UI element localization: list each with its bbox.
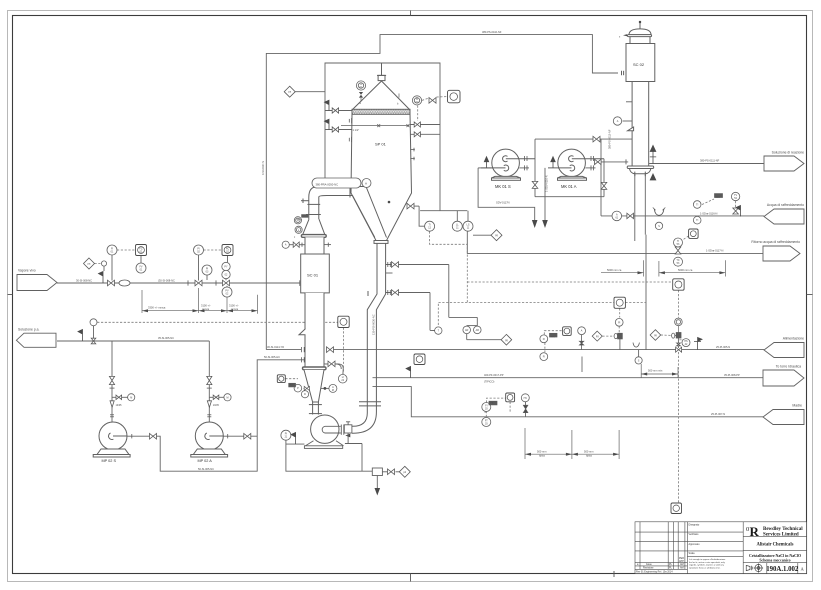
svg-text:SC 02: SC 02 xyxy=(633,62,645,67)
svg-text:Ritorno acqua di raffreddament: Ritorno acqua di raffreddamento xyxy=(751,240,800,244)
svg-text:Alistair Chemicals: Alistair Chemicals xyxy=(756,543,793,548)
svg-text:HV: HV xyxy=(524,397,528,400)
svg-text:PSHH: PSHH xyxy=(296,219,302,221)
svg-text:1-SDra-0117-N: 1-SDra-0117-N xyxy=(706,249,724,253)
svg-text:1 1/2": 1 1/2" xyxy=(353,128,360,132)
svg-text:Services Limited: Services Limited xyxy=(763,533,799,538)
svg-text:Bewdley Technical: Bewdley Technical xyxy=(763,527,803,532)
svg-text:25-PI-005-N: 25-PI-005-N xyxy=(716,345,730,349)
svg-text:M: M xyxy=(227,396,229,399)
svg-text:the loc.le, antica e ceto spor: the loc.le, antica e ceto sporchetti, on… xyxy=(689,561,726,564)
svg-text:mmca: mmca xyxy=(231,308,239,311)
svg-text:Is it enough to appear all'ind: Is it enough to appear all'individuazion… xyxy=(689,558,726,561)
svg-text:Revisione: Revisione xyxy=(643,567,654,570)
svg-text:500 mm: 500 mm xyxy=(584,449,593,453)
svg-text:REC: REC xyxy=(716,197,721,199)
svg-text:3100 +/-: 3100 +/- xyxy=(229,303,239,307)
svg-text:PY: PY xyxy=(224,266,228,269)
svg-text:190A.1.002: 190A.1.002 xyxy=(766,566,799,573)
svg-text:MK 01 A: MK 01 A xyxy=(561,184,577,189)
svg-text:500 mm min: 500 mm min xyxy=(648,369,663,373)
svg-text:Cristallizzatore NaCl in NaClO: Cristallizzatore NaCl in NaClO xyxy=(749,554,801,558)
svg-text:400-PF-0017-PP: 400-PF-0017-PP xyxy=(484,373,504,377)
svg-text:380-PRA-0050-NC: 380-PRA-0050-NC xyxy=(316,182,339,186)
svg-text:Schema meccanico: Schema meccanico xyxy=(759,558,790,562)
svg-text:AR: AR xyxy=(476,329,480,332)
svg-text:MP 02 S: MP 02 S xyxy=(102,459,117,463)
svg-text:TI: TI xyxy=(696,204,698,207)
svg-text:SP 01: SP 01 xyxy=(375,142,387,147)
svg-text:3100 +/-: 3100 +/- xyxy=(201,303,211,307)
svg-text:Rev 01 Engineering Rel. 10a 20: Rev 01 Engineering Rel. 10a 2014 xyxy=(636,571,673,574)
svg-text:tipico: tipico xyxy=(586,454,593,458)
svg-text:SDV-0117N: SDV-0117N xyxy=(496,201,510,205)
svg-text:SC 01: SC 01 xyxy=(307,273,319,278)
svg-text:FI: FI xyxy=(543,356,545,359)
svg-text:FI: FI xyxy=(543,338,545,341)
svg-text:MK 01 S: MK 01 S xyxy=(495,184,511,189)
svg-text:1-SDra-0116-N: 1-SDra-0116-N xyxy=(700,212,718,216)
svg-text:30-SI-0114-YD: 30-SI-0114-YD xyxy=(267,345,284,349)
svg-text:tipico: tipico xyxy=(539,454,546,458)
svg-text:10/05: 10/05 xyxy=(116,404,123,407)
svg-text:AR: AR xyxy=(465,329,469,332)
svg-text:Soluzione p.a.: Soluzione p.a. xyxy=(18,328,40,332)
svg-text:(30-SI-008-NC: (30-SI-008-NC xyxy=(158,279,175,283)
svg-text:D: D xyxy=(304,393,306,396)
svg-text:(TIPICO): (TIPICO) xyxy=(484,379,495,383)
svg-text:380-PS-0111-NF: 380-PS-0111-NF xyxy=(700,159,720,163)
svg-text:35-SI-005-NC: 35-SI-005-NC xyxy=(158,336,174,340)
svg-text:riproducte franca e attribuita: riproducte franca e attribuita error. xyxy=(689,566,721,569)
svg-text:3300 +/- mmca: 3300 +/- mmca xyxy=(148,306,166,310)
svg-text:0-SI-0047-N: 0-SI-0047-N xyxy=(261,161,265,175)
svg-text:REC: REC xyxy=(551,337,556,339)
svg-text:50-SI-005-NC: 50-SI-005-NC xyxy=(198,467,214,471)
svg-text:Scala: Scala xyxy=(689,552,696,555)
svg-text:10/05: 10/05 xyxy=(213,404,220,407)
svg-text:380-PS-0112-NF: 380-PS-0112-NF xyxy=(608,129,612,149)
svg-text:AM: AM xyxy=(680,567,684,570)
svg-text:PI: PI xyxy=(618,321,621,324)
svg-text:Vapore vivo: Vapore vivo xyxy=(18,269,36,273)
svg-text:M: M xyxy=(130,396,132,399)
svg-text:HY: HY xyxy=(680,340,684,342)
svg-text:Soluzione di reazione: Soluzione di reazione xyxy=(772,151,805,155)
svg-text:Verificato: Verificato xyxy=(689,533,700,536)
svg-text:Acqua di raffreddamento: Acqua di raffreddamento xyxy=(767,203,804,207)
svg-text:A: A xyxy=(365,182,367,186)
svg-text:380-PS-0110-NF: 380-PS-0110-NF xyxy=(482,30,502,34)
svg-text:regards, symbols, express a va: regards, symbols, express a valid any xyxy=(689,564,725,567)
svg-text:MP 02 A: MP 02 A xyxy=(198,459,213,463)
svg-text:R: R xyxy=(750,524,760,539)
svg-text:25-PI-007-N: 25-PI-007-N xyxy=(711,412,725,416)
svg-text:Approvato: Approvato xyxy=(689,543,701,546)
svg-text:Madre: Madre xyxy=(792,404,802,408)
svg-text:M: M xyxy=(332,389,334,392)
svg-text:PDT: PDT xyxy=(289,385,294,387)
svg-text:50-SI-005-HC: 50-SI-005-HC xyxy=(264,355,280,359)
svg-text:30-SI-008-NC: 30-SI-008-NC xyxy=(76,279,92,283)
svg-text:TI: TI xyxy=(696,219,698,222)
svg-text:500 mm: 500 mm xyxy=(537,449,546,453)
svg-text:To torre Idraulica: To torre Idraulica xyxy=(776,365,801,369)
svg-text:1-SDV-0116-N: 1-SDV-0116-N xyxy=(545,175,549,192)
svg-text:APP: APP xyxy=(679,560,684,563)
svg-text:5000 mm ca: 5000 mm ca xyxy=(607,268,622,272)
svg-text:5000 mm ca: 5000 mm ca xyxy=(678,268,693,272)
svg-text:35-PI-008-PP: 35-PI-008-PP xyxy=(724,373,740,377)
svg-text:Alimentazione: Alimentazione xyxy=(783,337,804,341)
svg-text:mmca: mmca xyxy=(202,308,210,311)
svg-text:Disegnato: Disegnato xyxy=(689,523,700,526)
svg-text:130-PSI-0030-NC: 130-PSI-0030-NC xyxy=(372,314,376,335)
